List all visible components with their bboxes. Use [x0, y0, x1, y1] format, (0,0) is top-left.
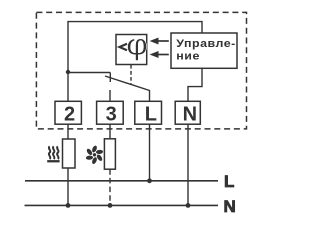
- svg-text:Управле-: Управле-: [176, 38, 236, 50]
- svg-text:N: N: [183, 103, 197, 125]
- svg-text:2: 2: [64, 103, 75, 125]
- svg-text:L: L: [145, 103, 157, 125]
- svg-text:L: L: [224, 172, 234, 191]
- svg-text:N: N: [224, 197, 236, 216]
- svg-text:φ: φ: [126, 27, 148, 61]
- svg-text:ние: ние: [176, 50, 200, 62]
- svg-text:3: 3: [106, 103, 117, 125]
